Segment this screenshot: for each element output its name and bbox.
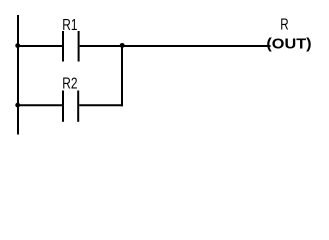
wire: contact R1 to output [80, 45, 271, 47]
wire: vertical connector right side [121, 45, 123, 106]
wire: contact R2 to connector [79, 104, 123, 106]
node: junction right of R1 [120, 43, 125, 48]
wire: rail to contact R2 [17, 104, 62, 106]
contact R1 right plate [78, 31, 80, 62]
wire: rail to contact R1 [17, 45, 62, 47]
svg-text:R1: R1 [62, 17, 77, 34]
contact R2 right plate [77, 91, 79, 122]
contact R2 left plate [62, 91, 64, 122]
svg-text:R: R [280, 17, 288, 34]
node: junction on rail (top branch) [15, 43, 20, 48]
left power rail [17, 15, 19, 135]
contact R1 left plate [62, 31, 64, 62]
svg-text:R2: R2 [62, 76, 77, 93]
svg-text:(OUT): (OUT) [266, 37, 311, 53]
node: junction on rail (bottom branch) [15, 103, 20, 108]
